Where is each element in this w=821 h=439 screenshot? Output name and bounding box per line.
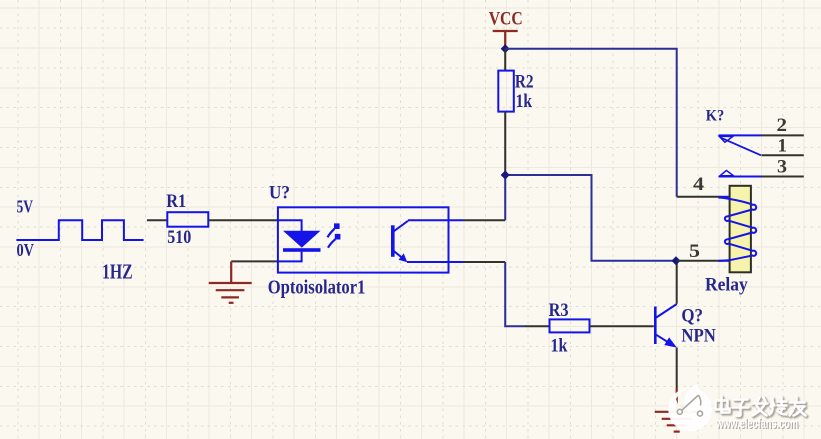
svg-text:R1: R1 [166,191,186,212]
svg-text:4: 4 [693,174,705,195]
wire R2 to node B [504,112,506,175]
contact mark pin 2 [719,136,733,142]
junction node VCC [501,44,510,53]
label 5V [17,197,34,217]
svg-text:www.elecfans.com: www.elecfans.com [715,415,798,431]
op-amp U1 optocoupler body [278,207,449,272]
power VCC [493,31,518,49]
wire collector riser / node B run [505,175,676,261]
label 1HZ [102,260,133,284]
svg-text:Relay: Relay [705,275,748,296]
label R1 [166,191,186,212]
junction node B [501,171,510,180]
svg-text:K?: K? [706,107,724,124]
wire emitter down [676,348,678,389]
wire optocoupler cathode to ground [231,260,278,262]
label Optoisolator1 [268,277,366,299]
svg-text:510: 510 [167,227,191,248]
label R2 [515,72,534,93]
phototransistor inside optocoupler [393,220,464,262]
svg-text:0V: 0V [17,240,35,260]
pin number 1 [778,135,788,156]
resistor R1 [167,212,208,227]
pin number 2 [777,115,788,136]
label NPN [681,326,716,347]
svg-text:R3: R3 [549,300,569,321]
wire opto emitter [464,261,506,263]
svg-text:2: 2 [777,115,788,136]
transistor Q1 NPN [655,304,677,344]
relay K1 coil body [730,186,751,272]
svg-text:R2: R2 [515,72,534,93]
wire VCC to R2 [504,49,506,71]
wire R1 to optocoupler anode [208,219,278,221]
junction node C [672,256,681,265]
wire opto collector [464,219,506,221]
ground GND right [655,389,699,432]
wire node to relay pin 4 [677,196,721,198]
svg-text:5: 5 [689,241,700,262]
wire VCC to relay pin4 [505,49,677,197]
wire source to R1 [147,219,167,221]
LED emission arrows [328,229,336,248]
svg-text:3: 3 [777,157,787,178]
relay coil winding [718,198,756,261]
svg-text:1k: 1k [516,91,533,112]
resistor R3 [550,319,590,332]
svg-text:VCC: VCC [489,8,523,29]
contact pin 3 [719,176,804,178]
wire node C to relay pin 5 [677,260,721,262]
watermark url www.elecfans.com [715,415,799,432]
resistor R2 [498,71,514,112]
pin number 3 [777,157,787,178]
value 1k (R3) [551,336,568,357]
value 510 [167,227,191,248]
label Relay [705,275,748,296]
svg-text:1: 1 [778,135,788,156]
pin number 5 [689,241,700,262]
svg-text:5V: 5V [17,197,34,217]
armature (common to pin 1) [721,138,804,156]
label U? [269,183,290,204]
ground GND left [209,261,252,302]
label R3 [549,300,569,321]
svg-text:NPN: NPN [681,326,716,347]
contact mark pin 3 [720,170,734,175]
label 0V [17,240,35,260]
wire R3 to transistor base [590,325,654,327]
svg-text:1HZ: 1HZ [102,260,133,284]
wire emitter to R3 [505,262,525,326]
label Q? [681,306,703,327]
wire collector to node C [676,261,678,304]
LED inside optocoupler [278,220,302,261]
label VCC [489,8,523,29]
svg-text:1k: 1k [551,336,568,357]
pulse source waveform [16,220,143,240]
value 1k (R2) [516,91,533,112]
contact pin 2 [719,134,804,136]
svg-text:Q?: Q? [681,306,703,327]
pin number 4 [693,174,705,195]
svg-text:Optoisolator1: Optoisolator1 [268,277,366,299]
label K? [706,107,724,124]
svg-text:U?: U? [269,183,290,204]
